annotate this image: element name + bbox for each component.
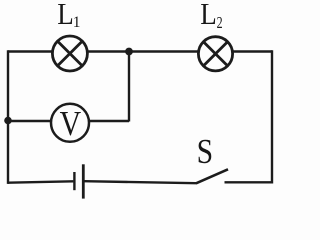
svg-text:2: 2 bbox=[217, 13, 223, 32]
svg-text:1: 1 bbox=[73, 14, 81, 31]
svg-text:S: S bbox=[197, 133, 214, 171]
svg-text:L: L bbox=[57, 0, 74, 31]
svg-text:L: L bbox=[200, 0, 217, 31]
svg-text:V: V bbox=[60, 104, 82, 143]
